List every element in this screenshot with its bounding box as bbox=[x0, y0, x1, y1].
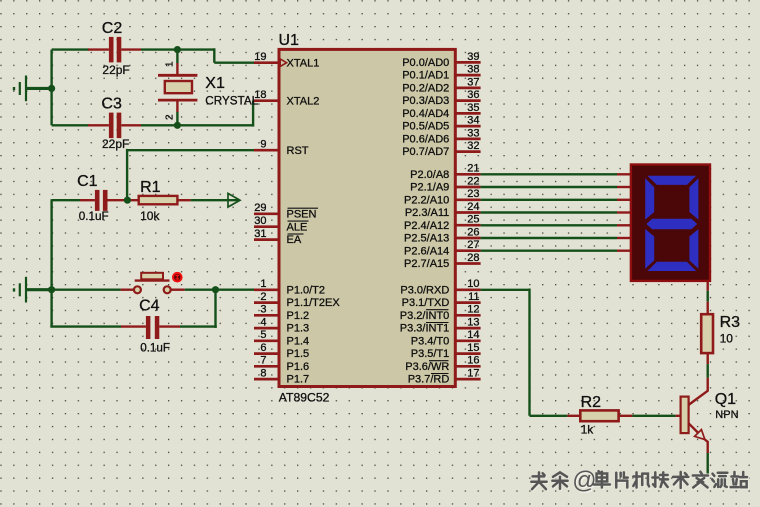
svg-text:R2: R2 bbox=[581, 394, 602, 411]
pin 35 P0.4/AD4 bbox=[402, 102, 480, 120]
svg-text:P3.5/T1: P3.5/T1 bbox=[411, 348, 450, 360]
pin 17 P3.7/RD bbox=[408, 368, 481, 386]
svg-text:P3.1/TXD: P3.1/TXD bbox=[402, 297, 450, 309]
pin 15 P3.5/T1 bbox=[411, 342, 481, 360]
svg-text:P2.4/A12: P2.4/A12 bbox=[404, 220, 449, 232]
capacitor C1 0.1uF bbox=[77, 173, 126, 223]
resistor R2 1k bbox=[567, 394, 632, 436]
pin 39 P0.0/AD0 bbox=[402, 51, 480, 69]
svg-text:0.1uF: 0.1uF bbox=[140, 342, 170, 355]
pin 6 P1.5 bbox=[254, 342, 309, 360]
svg-text:P2.3/A11: P2.3/A11 bbox=[405, 207, 449, 219]
pin 11 P3.1/TXD bbox=[402, 291, 481, 309]
pin 12 P3.2/INT0 bbox=[400, 304, 481, 322]
pin 8 P1.7 bbox=[254, 368, 309, 386]
svg-text:33: 33 bbox=[467, 127, 479, 139]
watermark 头条@单片机技术交流站 bbox=[531, 467, 748, 495]
svg-text:10k: 10k bbox=[140, 209, 160, 223]
svg-text:P0.2/AD2: P0.2/AD2 bbox=[402, 83, 449, 95]
svg-text:P3.0/RXD: P3.0/RXD bbox=[400, 284, 449, 296]
svg-text:P2.7/A15: P2.7/A15 bbox=[404, 258, 449, 270]
svg-text:ALE: ALE bbox=[287, 221, 308, 233]
svg-text:P3.3/INT1: P3.3/INT1 bbox=[400, 323, 450, 335]
svg-text:0.1uF: 0.1uF bbox=[79, 210, 109, 223]
svg-text:R3: R3 bbox=[720, 314, 741, 331]
pin 16 P3.6/WR bbox=[405, 355, 480, 373]
capacitor C4 0.1uF bbox=[50, 290, 217, 355]
svg-text:31: 31 bbox=[254, 228, 266, 240]
svg-text:Q1: Q1 bbox=[715, 391, 736, 408]
pin 13 P3.3/INT1 bbox=[400, 317, 481, 335]
pin 10 P3.0/RXD bbox=[400, 278, 480, 296]
wire button to P1.0 bbox=[185, 289, 255, 291]
svg-text:P3.6/WR: P3.6/WR bbox=[405, 361, 449, 373]
pin 31 EA bbox=[254, 228, 304, 246]
node ground-button junction bbox=[48, 286, 55, 293]
wire corner up bbox=[252, 101, 254, 127]
wire down to R2 row bbox=[528, 289, 530, 416]
svg-text:RST: RST bbox=[287, 145, 309, 157]
svg-text:P1.6: P1.6 bbox=[287, 361, 310, 373]
svg-text:XTAL2: XTAL2 bbox=[287, 95, 320, 107]
svg-text:P1.4: P1.4 bbox=[287, 335, 310, 347]
svg-text:22pF: 22pF bbox=[102, 63, 129, 77]
svg-text:27: 27 bbox=[467, 239, 479, 251]
svg-text:35: 35 bbox=[467, 102, 479, 114]
resistor R3 10 bbox=[701, 314, 740, 353]
pin 19 XTAL1 bbox=[254, 51, 319, 69]
svg-text:23: 23 bbox=[467, 188, 479, 200]
wire P3.0 out bbox=[481, 289, 530, 291]
pin 3 P1.2 bbox=[254, 304, 309, 322]
svg-text:XTAL1: XTAL1 bbox=[287, 57, 320, 69]
svg-text:11: 11 bbox=[468, 291, 479, 303]
svg-text:4: 4 bbox=[260, 317, 266, 329]
wire to button bbox=[52, 289, 121, 291]
wire P2.2 to display bbox=[481, 199, 617, 201]
node crystal top junction bbox=[174, 46, 181, 53]
svg-text:5: 5 bbox=[260, 329, 266, 341]
pin 25 P2.4/A12 bbox=[404, 214, 481, 232]
svg-text:30: 30 bbox=[254, 215, 266, 227]
svg-text:P2.5/A13: P2.5/A13 bbox=[404, 233, 449, 245]
pin 2 P1.1/T2EX bbox=[254, 291, 340, 309]
svg-text:C2: C2 bbox=[102, 20, 123, 37]
svg-text:13: 13 bbox=[467, 317, 479, 329]
button red indicator bbox=[172, 272, 183, 283]
pin 7 P1.6 bbox=[254, 355, 309, 373]
pin 24 P2.3/A11 bbox=[405, 201, 481, 219]
svg-text:12: 12 bbox=[467, 304, 479, 316]
wire R2 to Q1 base bbox=[632, 415, 675, 417]
pin 34 P0.5/AD5 bbox=[402, 115, 480, 133]
svg-text:P0.0/AD0: P0.0/AD0 bbox=[402, 57, 449, 69]
svg-text:19: 19 bbox=[254, 51, 266, 63]
pin 28 P2.7/A15 bbox=[404, 252, 481, 270]
svg-text:P1.1/T2EX: P1.1/T2EX bbox=[287, 297, 341, 309]
svg-text:P1.7: P1.7 bbox=[287, 374, 310, 386]
pin 26 P2.5/A13 bbox=[404, 226, 481, 244]
wire P2.4 to display bbox=[481, 224, 617, 226]
svg-text:18: 18 bbox=[254, 89, 266, 101]
pin 30 ALE bbox=[254, 215, 309, 233]
svg-text:P3.2/INT0: P3.2/INT0 bbox=[400, 310, 450, 322]
svg-text:P1.5: P1.5 bbox=[287, 348, 310, 360]
svg-text:R1: R1 bbox=[140, 179, 161, 196]
capacitor C3 22pF bbox=[88, 95, 141, 151]
ground (top left) bbox=[14, 76, 53, 102]
svg-text:P2.2/A10: P2.2/A10 bbox=[404, 194, 449, 206]
wire R3 to Q1 collector bbox=[707, 353, 709, 364]
wire to C3 bbox=[52, 124, 89, 126]
svg-text:26: 26 bbox=[467, 226, 479, 238]
ground (bottom left) bbox=[14, 277, 52, 303]
pin 1 P1.0/T2 bbox=[254, 278, 325, 296]
pin 32 P0.7/AD7 bbox=[402, 140, 480, 158]
pin 37 P0.2/AD2 bbox=[402, 76, 480, 94]
svg-text:9: 9 bbox=[260, 139, 266, 151]
svg-text:PSEN: PSEN bbox=[287, 208, 317, 220]
svg-text:2: 2 bbox=[260, 291, 266, 303]
wire RST bbox=[127, 149, 255, 151]
pin 4 P1.3 bbox=[254, 317, 309, 335]
pin 21 P2.0/A8 bbox=[410, 163, 480, 181]
svg-text:1k: 1k bbox=[581, 422, 595, 436]
capacitor C2 22pF bbox=[88, 20, 141, 77]
svg-text:P0.4/AD4: P0.4/AD4 bbox=[402, 108, 449, 120]
svg-text:P1.2: P1.2 bbox=[287, 310, 310, 322]
svg-text:15: 15 bbox=[467, 342, 479, 354]
pin 29 PSEN bbox=[254, 202, 318, 220]
wire P2.5 to display bbox=[481, 237, 617, 239]
svg-text:39: 39 bbox=[467, 51, 479, 63]
wire into XTAL1 bbox=[214, 62, 255, 64]
svg-text:17: 17 bbox=[467, 368, 479, 380]
node C4 right junction bbox=[212, 286, 219, 293]
wire to C1 bbox=[52, 199, 80, 201]
svg-text:8: 8 bbox=[260, 368, 266, 380]
svg-text:10: 10 bbox=[720, 331, 734, 345]
svg-text:P0.6/AD6: P0.6/AD6 bbox=[402, 134, 449, 146]
pin 23 P2.2/A10 bbox=[404, 188, 481, 206]
svg-text:1: 1 bbox=[260, 278, 266, 290]
pin 5 P1.4 bbox=[254, 329, 309, 347]
wire end arrow bbox=[228, 193, 240, 207]
svg-text:2: 2 bbox=[165, 114, 176, 120]
svg-text:P1.3: P1.3 bbox=[287, 323, 310, 335]
svg-text:P3.7/RD: P3.7/RD bbox=[408, 374, 450, 386]
pin 14 P3.4/T0 bbox=[411, 329, 481, 347]
svg-text:C4: C4 bbox=[139, 297, 160, 314]
svg-text:22: 22 bbox=[467, 175, 479, 187]
pin 18 XTAL2 bbox=[254, 89, 319, 107]
wire C1 row down to button row bbox=[50, 199, 52, 290]
pin 27 P2.6/A14 bbox=[404, 239, 481, 257]
svg-text:@: @ bbox=[572, 467, 596, 494]
pin 22 P2.1/A9 bbox=[410, 175, 480, 193]
svg-text:3: 3 bbox=[260, 304, 266, 316]
wire into XTAL2 bbox=[253, 99, 255, 101]
svg-text:AT89C52: AT89C52 bbox=[279, 391, 330, 405]
svg-text:1: 1 bbox=[165, 61, 176, 67]
svg-text:24: 24 bbox=[467, 201, 479, 213]
svg-text:EA: EA bbox=[287, 234, 302, 246]
svg-text:P0.5/AD5: P0.5/AD5 bbox=[402, 121, 449, 133]
svg-text:U1: U1 bbox=[279, 32, 300, 49]
pin 38 P0.1/AD1 bbox=[402, 64, 480, 82]
svg-text:14: 14 bbox=[467, 329, 479, 341]
wire to C2 bbox=[52, 48, 89, 50]
pin 33 P0.6/AD6 bbox=[402, 127, 480, 145]
svg-text:32: 32 bbox=[467, 140, 479, 152]
pin 36 P0.3/AD3 bbox=[402, 89, 480, 107]
svg-text:21: 21 bbox=[467, 163, 479, 175]
transistor Q1 NPN bbox=[681, 378, 739, 453]
svg-text:36: 36 bbox=[467, 89, 479, 101]
svg-text:P0.3/AD3: P0.3/AD3 bbox=[402, 95, 449, 107]
svg-text:6: 6 bbox=[260, 342, 266, 354]
svg-text:28: 28 bbox=[467, 252, 479, 264]
svg-text:P1.0/T2: P1.0/T2 bbox=[287, 284, 326, 296]
svg-text:P0.1/AD1: P0.1/AD1 bbox=[402, 70, 449, 82]
push button bbox=[121, 272, 185, 293]
svg-text:38: 38 bbox=[467, 64, 479, 76]
node ground tap bbox=[48, 85, 55, 92]
svg-text:C1: C1 bbox=[77, 173, 98, 190]
wire P2.0 to display bbox=[481, 173, 617, 175]
wire C3 to corner bbox=[141, 124, 253, 126]
svg-text:37: 37 bbox=[467, 76, 479, 88]
svg-text:7: 7 bbox=[260, 355, 266, 367]
wire R1 output bbox=[191, 199, 239, 201]
svg-text:P2.1/A9: P2.1/A9 bbox=[410, 182, 449, 194]
svg-text:P2.0/A8: P2.0/A8 bbox=[410, 169, 449, 181]
svg-text:16: 16 bbox=[467, 355, 479, 367]
wire P2.6 to display bbox=[481, 249, 617, 251]
wire C2 to corner bbox=[141, 48, 214, 50]
pin 9 RST bbox=[254, 139, 309, 157]
wire to R2 bbox=[530, 415, 568, 417]
wire RST down to R1 bbox=[126, 149, 128, 200]
wire corner down bbox=[213, 48, 215, 62]
crystal X1 bbox=[158, 50, 259, 126]
IC U1 AT89C52 body bbox=[279, 49, 455, 386]
wire C2-C3 left vertical bbox=[50, 50, 52, 126]
7-segment display bbox=[631, 165, 710, 281]
resistor R1 10k bbox=[127, 179, 190, 223]
svg-text:25: 25 bbox=[467, 214, 479, 226]
svg-text:10: 10 bbox=[467, 278, 479, 290]
wire display pin to R3 bbox=[707, 282, 709, 291]
node C1-R1 junction bbox=[124, 197, 131, 204]
svg-text:P0.7/AD7: P0.7/AD7 bbox=[402, 146, 449, 158]
wire Q1 emitter down bbox=[707, 453, 709, 474]
wire P2.1 to display bbox=[481, 186, 617, 188]
svg-text:C3: C3 bbox=[101, 95, 122, 112]
node crystal bottom junction bbox=[174, 122, 181, 129]
svg-text:29: 29 bbox=[254, 202, 266, 214]
svg-text:P3.4/T0: P3.4/T0 bbox=[411, 335, 450, 347]
svg-text:NPN: NPN bbox=[715, 409, 738, 421]
svg-text:34: 34 bbox=[467, 115, 479, 127]
svg-text:P2.6/A14: P2.6/A14 bbox=[404, 245, 449, 257]
wire P2.3 to display bbox=[481, 211, 617, 213]
svg-text:X1: X1 bbox=[205, 75, 225, 92]
svg-text:CRYSTAL: CRYSTAL bbox=[205, 95, 258, 108]
svg-text:22pF: 22pF bbox=[102, 137, 129, 151]
